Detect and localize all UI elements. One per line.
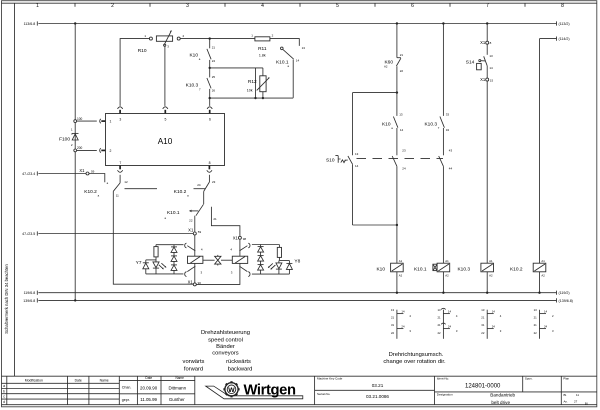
contact S10 aux (column 6) xyxy=(392,149,406,264)
svg-text:K10.2: K10.2 xyxy=(510,266,523,272)
svg-text:03.21.0086: 03.21.0086 xyxy=(366,394,389,399)
svg-text:X1: X1 xyxy=(233,235,239,240)
svg-text:Spos.: Spos. xyxy=(525,377,533,381)
svg-text:12: 12 xyxy=(124,180,128,184)
diode Y7 suppressor xyxy=(145,260,147,263)
resistor Y7 xyxy=(155,245,157,247)
wire X1:59 to valve Y7 coil xyxy=(194,235,196,256)
svg-text:W: W xyxy=(228,387,235,394)
svg-text:K10: K10 xyxy=(376,266,385,272)
plug Y8 coil bottom xyxy=(231,266,250,276)
node terminal wire 200 xyxy=(74,149,77,152)
relay coil K10.2 xyxy=(510,259,546,293)
contact K10.2 (right, below pin 8) xyxy=(174,175,216,204)
svg-text:Modification: Modification xyxy=(25,378,43,382)
wire X1:98 to valve Y8 coil xyxy=(239,239,241,256)
wire left supply drop x=75 xyxy=(74,24,76,120)
junction R12 bypass bottom xyxy=(254,97,256,99)
svg-text:K10.1: K10.1 xyxy=(414,266,427,272)
title block right cells xyxy=(317,377,570,397)
svg-text:K10.1: K10.1 xyxy=(167,210,180,216)
potentiometer R10 xyxy=(138,31,185,55)
frame column ticks xyxy=(75,3,525,7)
svg-text:6: 6 xyxy=(209,118,211,122)
svg-text:21: 21 xyxy=(437,323,441,327)
svg-text:13: 13 xyxy=(302,46,306,50)
wire R10 wiper to pin 5 xyxy=(164,46,166,106)
svg-text:33: 33 xyxy=(446,113,450,117)
svg-text:43: 43 xyxy=(449,149,453,153)
node terminal wire 100 xyxy=(74,120,77,123)
wire 47 terminal X1:59 upper xyxy=(22,171,86,176)
svg-text:Designation: Designation xyxy=(437,393,453,397)
svg-text:21: 21 xyxy=(534,323,538,327)
svg-text:22: 22 xyxy=(437,331,441,335)
svg-text:Bl.: Bl. xyxy=(564,393,568,397)
svg-text:X1: X1 xyxy=(480,40,486,45)
svg-text:200: 200 xyxy=(77,146,83,150)
junction K10.2 coil / rail 119 xyxy=(538,292,540,294)
indicator group Y7 xyxy=(136,245,184,274)
junction K10 / R12 wire xyxy=(209,67,211,69)
svg-text:21: 21 xyxy=(213,217,217,221)
svg-text:K10.2: K10.2 xyxy=(84,189,97,195)
terminal X1:98 xyxy=(233,235,247,241)
svg-text:X1: X1 xyxy=(188,280,194,285)
contact K10.1 (top right of R11) xyxy=(276,46,305,98)
wire valve return right xyxy=(196,263,240,284)
svg-text:backward: backward xyxy=(228,366,253,372)
legend text right xyxy=(383,352,446,365)
wire 100 to A10 pin 1 xyxy=(77,117,106,123)
svg-text:31: 31 xyxy=(391,323,395,327)
contact K10.2 (left, below pin 7) xyxy=(84,175,128,198)
wire junction to S10 branch xyxy=(353,92,397,94)
svg-text:14: 14 xyxy=(544,310,548,314)
terminal X1:8 xyxy=(480,24,492,46)
junction top rail / K10.3 branch xyxy=(442,22,444,24)
junction top rail / S14 branch xyxy=(486,22,488,24)
svg-text:22: 22 xyxy=(400,69,404,73)
svg-text:gepr.: gepr. xyxy=(122,398,130,402)
wire contact to valve return xyxy=(113,191,193,284)
svg-text:1: 1 xyxy=(110,120,112,124)
mechanical link S10 dashed xyxy=(357,158,444,160)
diode chain Y8 xyxy=(260,245,262,247)
wire 114 drop to K10.2 coil xyxy=(539,39,541,264)
svg-text:11.05.99: 11.05.99 xyxy=(140,397,157,402)
wire 47 lower rail to X1:59 xyxy=(22,231,193,236)
svg-text:(119/2): (119/2) xyxy=(559,291,570,295)
svg-text:Bänder: Bänder xyxy=(216,344,235,350)
switch S14 latching xyxy=(466,44,493,70)
contact K10 a (self hold) xyxy=(382,93,404,156)
svg-text:21: 21 xyxy=(212,46,216,50)
svg-text:K10.3: K10.3 xyxy=(186,83,199,89)
svg-text:14: 14 xyxy=(489,66,493,70)
svg-text:03.21: 03.21 xyxy=(372,383,384,388)
svg-text:5: 5 xyxy=(165,118,167,122)
svg-text:Drehrichtungsumsch.: Drehrichtungsumsch. xyxy=(389,352,444,358)
svg-text:13: 13 xyxy=(481,308,485,312)
svg-text:21: 21 xyxy=(391,316,395,320)
wire 114 entry top right xyxy=(540,37,570,42)
svg-text:24: 24 xyxy=(492,325,496,329)
svg-text:21: 21 xyxy=(400,53,404,57)
wire Y8 bottom xyxy=(252,273,290,275)
svg-text:A2: A2 xyxy=(489,274,493,278)
svg-text:22: 22 xyxy=(534,331,538,335)
svg-text:21: 21 xyxy=(481,316,485,320)
contact cross reference table K10.3 xyxy=(481,308,501,339)
svg-text:21: 21 xyxy=(437,316,441,320)
wire Y7 top xyxy=(156,244,184,246)
svg-text:59: 59 xyxy=(198,230,202,234)
svg-text:24: 24 xyxy=(212,59,216,63)
svg-text:13: 13 xyxy=(489,54,493,58)
diode F100 xyxy=(59,127,78,147)
plug Y8 coil top xyxy=(230,243,250,252)
wire pin3 riser xyxy=(120,39,149,106)
svg-text:24: 24 xyxy=(448,325,452,329)
svg-text:A1: A1 xyxy=(541,259,545,263)
junction K10.1 coil / rail 119 xyxy=(442,292,444,294)
svg-text:Y8: Y8 xyxy=(294,258,300,264)
svg-text:belt drive: belt drive xyxy=(491,400,510,405)
svg-text:139/6.8: 139/6.8 xyxy=(23,299,35,303)
frame top ruler line xyxy=(2,2,597,4)
svg-text:rückwärts: rückwärts xyxy=(226,359,251,365)
svg-text:1: 1 xyxy=(36,3,39,9)
solenoid coil Y8 xyxy=(232,256,247,263)
wire feedback bottom xyxy=(210,97,294,99)
svg-text:14: 14 xyxy=(448,310,452,314)
LED Y8 xyxy=(278,261,280,263)
svg-text:R10: R10 xyxy=(138,48,147,54)
diode Y8 suppressor xyxy=(288,261,290,264)
svg-text:Name: Name xyxy=(100,378,109,382)
svg-text:R11: R11 xyxy=(258,46,267,52)
contact cross reference table K10 xyxy=(391,308,411,339)
svg-text:13: 13 xyxy=(355,152,359,156)
svg-text:59: 59 xyxy=(91,169,95,173)
svg-text:14: 14 xyxy=(296,58,300,62)
svg-text:Plan: Plan xyxy=(563,377,569,381)
legend text center xyxy=(183,330,253,372)
terminal X1:59 (left) xyxy=(79,168,94,175)
svg-text:22: 22 xyxy=(189,219,193,223)
relay coil K10.3 xyxy=(457,259,493,293)
svg-text:4: 4 xyxy=(261,3,264,9)
wire 139 bottom rail xyxy=(23,298,573,303)
svg-text:(139/6.8): (139/6.8) xyxy=(559,299,573,303)
wire Y8 top xyxy=(252,244,280,246)
svg-text:An.: An. xyxy=(564,399,569,403)
relay coil K10.1 latching xyxy=(414,259,450,293)
plug Y7 coil top xyxy=(185,243,203,252)
svg-text:7: 7 xyxy=(486,3,489,9)
svg-text:24: 24 xyxy=(401,325,405,329)
svg-text:27: 27 xyxy=(574,399,578,403)
Wirtgen logo xyxy=(206,381,303,399)
svg-text:K10.3: K10.3 xyxy=(457,266,470,272)
svg-text:K10.2: K10.2 xyxy=(174,189,187,195)
wire X1 to contact xyxy=(89,174,105,183)
junction K10.3 / feedback wire xyxy=(209,97,211,99)
svg-text:20.09.90: 20.09.90 xyxy=(140,386,158,391)
svg-text:vorwärts: vorwärts xyxy=(183,359,205,365)
svg-text:47-/23.5: 47-/23.5 xyxy=(22,232,35,236)
svg-text:Chan.: Chan. xyxy=(122,386,132,390)
svg-text:14: 14 xyxy=(355,164,359,168)
mechanical link K10.2 contacts xyxy=(125,188,206,190)
svg-text:Dittmann: Dittmann xyxy=(169,386,187,391)
resistor R11 1.8k xyxy=(251,34,273,58)
svg-text:2: 2 xyxy=(111,3,114,9)
terminal X1:15 xyxy=(480,66,493,263)
svg-text:R12: R12 xyxy=(248,79,257,85)
svg-text:Date: Date xyxy=(145,376,152,380)
svg-text:24: 24 xyxy=(544,325,548,329)
svg-text:Bandantrieb: Bandantrieb xyxy=(490,392,515,397)
svg-text:Date: Date xyxy=(75,378,82,382)
A10 pin 5 plug xyxy=(163,107,168,114)
resistor Y8 xyxy=(278,245,280,248)
contact K60 NC xyxy=(384,24,403,93)
diode chain Y7 xyxy=(173,245,175,247)
contact K10 (column 3 top) xyxy=(189,39,215,68)
potentiometer R12 10k xyxy=(247,68,270,98)
svg-text:A2: A2 xyxy=(399,274,403,278)
wire 119 bottom rail xyxy=(24,291,570,296)
wire Y7 bottom xyxy=(146,273,184,275)
svg-text:X1: X1 xyxy=(188,228,194,233)
svg-text:S14: S14 xyxy=(466,60,475,66)
terminal X1:90 xyxy=(188,280,202,286)
svg-text:K10: K10 xyxy=(382,121,391,127)
svg-text:speed control: speed control xyxy=(208,337,243,343)
svg-text:23: 23 xyxy=(402,149,406,153)
svg-text:change over rotation dir.: change over rotation dir. xyxy=(383,359,446,365)
A10 pin 7 plug xyxy=(118,166,123,173)
svg-text:44: 44 xyxy=(449,166,453,170)
svg-text:b: b xyxy=(3,389,5,393)
contact cross reference table K10.1 xyxy=(437,308,457,339)
svg-text:15: 15 xyxy=(490,79,494,83)
svg-text:X1: X1 xyxy=(79,168,85,173)
svg-text:Ident-No.: Ident-No. xyxy=(437,377,450,381)
svg-text:98: 98 xyxy=(243,237,247,241)
svg-text:11: 11 xyxy=(116,193,119,197)
svg-text:d: d xyxy=(3,400,5,404)
contact S10 aux 2 xyxy=(439,149,453,264)
svg-text:Machine Key Code: Machine Key Code xyxy=(317,377,343,381)
wire LED junction xyxy=(146,259,156,261)
svg-text:22: 22 xyxy=(481,331,485,335)
svg-text:23: 23 xyxy=(212,180,216,184)
svg-text:Drehzahlsteuerung: Drehzahlsteuerung xyxy=(201,330,250,336)
svg-text:A2: A2 xyxy=(384,65,388,69)
svg-text:14: 14 xyxy=(400,128,404,132)
svg-text:c: c xyxy=(3,395,5,399)
wire 113 top supply rail xyxy=(24,21,570,26)
junction K10.3 coil / rail 119 xyxy=(486,292,488,294)
svg-text:Wirtgen: Wirtgen xyxy=(244,382,297,398)
svg-text:Schaltvermerk nach DIN 34 beac: Schaltvermerk nach DIN 34 beachten xyxy=(4,264,9,334)
svg-text:10k: 10k xyxy=(247,88,253,92)
svg-text:S10: S10 xyxy=(326,158,335,164)
svg-text:13: 13 xyxy=(534,308,538,312)
svg-text:119/6.8: 119/6.8 xyxy=(24,291,36,295)
LED Y7 xyxy=(153,262,159,268)
svg-text:A1: A1 xyxy=(489,259,493,263)
svg-text:A1: A1 xyxy=(399,259,403,263)
svg-text:1.8k: 1.8k xyxy=(259,53,266,57)
wire 200 to A10 pin 2 xyxy=(77,146,106,152)
A10 pin 6 plug xyxy=(207,107,212,114)
junction S10 return / K10 coil branch xyxy=(396,224,398,226)
svg-text:100: 100 xyxy=(77,117,83,121)
svg-text:11: 11 xyxy=(576,393,579,397)
svg-text:21: 21 xyxy=(534,316,538,320)
solenoid coil Y7 xyxy=(188,256,203,263)
svg-text:8: 8 xyxy=(209,161,211,165)
wire Y7 coil bottom xyxy=(194,263,196,283)
svg-text:(114/2): (114/2) xyxy=(559,37,570,41)
junction R12 bottom xyxy=(262,97,264,99)
junction left drop / rail 139 xyxy=(74,299,76,301)
contact cross reference table K10.2 xyxy=(534,308,554,339)
junction top rail / F100 branch xyxy=(74,22,76,24)
svg-text:forward: forward xyxy=(184,366,203,372)
svg-text:13: 13 xyxy=(437,308,441,312)
svg-text:A10: A10 xyxy=(158,137,173,146)
wire junction to A10 pin 6 xyxy=(209,98,211,106)
svg-text:Serial-No.: Serial-No. xyxy=(317,392,331,396)
wire K10 junction to R12 xyxy=(210,67,263,69)
hydraulic orifice between coils xyxy=(203,255,232,266)
plug Y7 coil bottom xyxy=(185,266,203,276)
svg-text:13: 13 xyxy=(391,308,395,312)
wire R12 bypass xyxy=(255,68,257,98)
svg-text:8: 8 xyxy=(561,3,564,9)
svg-text:3: 3 xyxy=(119,118,121,122)
wire R11 to K10.1 xyxy=(270,39,299,46)
junction K10 coil / rail 119 xyxy=(396,292,398,294)
junction K60 / S10 xyxy=(396,91,398,93)
svg-text:(113/2): (113/2) xyxy=(559,22,570,26)
svg-text:14: 14 xyxy=(401,310,405,314)
junction R10 wire / K10 contact xyxy=(209,37,211,39)
controller A10 xyxy=(106,114,225,166)
changeover contact K10.1 (valve selector) xyxy=(165,204,240,236)
frame column numbers xyxy=(36,3,564,9)
wire S10 branch return xyxy=(353,224,397,226)
A10 pin 3 plug xyxy=(118,107,123,114)
svg-text:Bl.: Bl. xyxy=(585,402,589,406)
svg-text:113/6.8: 113/6.8 xyxy=(24,22,36,26)
frame left inner line xyxy=(14,3,16,376)
contact K10.3 (column 6-7) xyxy=(424,24,449,156)
contact K10.3 (column 3) xyxy=(186,68,216,98)
svg-text:26: 26 xyxy=(212,89,216,93)
svg-text:6: 6 xyxy=(411,3,414,9)
svg-text:Y7: Y7 xyxy=(136,260,142,266)
svg-text:25: 25 xyxy=(212,75,216,79)
svg-text:A2: A2 xyxy=(445,274,449,278)
junction top rail / K60 branch xyxy=(396,22,398,24)
svg-text:a: a xyxy=(3,384,5,388)
relay coil K10 xyxy=(376,259,403,293)
svg-text:24: 24 xyxy=(402,166,406,170)
svg-text:34: 34 xyxy=(446,128,450,132)
svg-text:14: 14 xyxy=(492,310,496,314)
svg-text:K10.3: K10.3 xyxy=(424,121,437,127)
svg-text:F100: F100 xyxy=(59,137,70,143)
svg-text:A2: A2 xyxy=(541,274,545,278)
indicator group Y8 xyxy=(252,245,301,275)
svg-text:7: 7 xyxy=(119,161,121,165)
switch S10 xyxy=(326,93,359,225)
svg-text:47-/23.4: 47-/23.4 xyxy=(22,172,35,176)
svg-text:13: 13 xyxy=(399,113,403,117)
svg-text:22: 22 xyxy=(391,331,395,335)
svg-text:3: 3 xyxy=(186,3,189,9)
svg-text:2: 2 xyxy=(110,149,112,153)
svg-text:conveyors: conveyors xyxy=(212,350,239,356)
svg-text:124801-0000: 124801-0000 xyxy=(465,383,501,389)
svg-text:K10: K10 xyxy=(189,53,198,59)
svg-text:Name: Name xyxy=(175,376,184,380)
svg-text:X1: X1 xyxy=(480,77,486,82)
terminal X1:59 (lower) xyxy=(188,228,201,235)
wire R10 to R11 xyxy=(180,38,255,40)
svg-text:Gunther: Gunther xyxy=(169,397,185,402)
svg-text:31: 31 xyxy=(481,323,485,327)
svg-text:A1: A1 xyxy=(445,259,449,263)
A10 pin 8 plug xyxy=(207,166,212,173)
svg-text:24: 24 xyxy=(197,183,201,187)
svg-text:5: 5 xyxy=(336,3,339,9)
